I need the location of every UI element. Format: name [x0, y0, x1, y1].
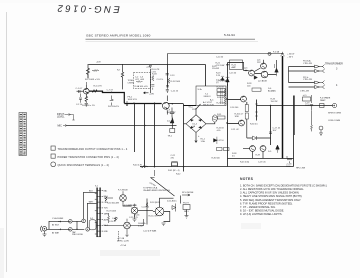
svg-text:MAG: MAG	[104, 195, 109, 198]
wire rail bottom long	[140, 166, 294, 168]
wire riser blk	[83, 192, 96, 219]
selector contact rungs	[96, 191, 100, 237]
svg-text:C-1 4.7: C-1 4.7	[76, 88, 84, 90]
capacitor C7 coupling	[110, 96, 114, 106]
svg-text:C1-A 100MF: C1-A 100MF	[52, 217, 64, 220]
wire q10 q11 stubs	[229, 148, 263, 158]
svg-text:CTRL-2W: CTRL-2W	[303, 79, 312, 81]
svg-text:1KV: 1KV	[273, 130, 277, 132]
legend checkbox 1: transformer connector pins	[51, 146, 55, 150]
diode D8	[253, 136, 257, 140]
wire input bottom	[49, 228, 70, 230]
resistor R31L box	[218, 116, 226, 119]
fuse F4 spkr	[320, 104, 325, 108]
wire q15 collector up	[160, 198, 174, 207]
svg-text:C-21 .02: C-21 .02	[231, 129, 240, 131]
resistor R25 box	[217, 89, 226, 92]
node rail junctions	[154, 166, 155, 167]
svg-text:R-41 (W – 4): R-41 (W – 4)	[168, 170, 180, 172]
handwritten sheet number ENG-0162 rotated 180	[55, 2, 120, 14]
svg-text:TUN: TUN	[104, 208, 109, 210]
fuse F2 on B+ line	[268, 52, 271, 55]
wire Q3 emitter down	[166, 111, 168, 115]
svg-text:C-14 50: C-14 50	[216, 57, 224, 59]
wire psu top link	[168, 103, 184, 105]
wire riser +24V	[167, 54, 169, 65]
node mic line crossings	[144, 125, 145, 126]
bias chain vertical	[256, 100, 258, 121]
node junction psu	[172, 103, 173, 104]
wire connector feed 3	[289, 82, 315, 84]
svg-text:R-52 4.7K: R-52 4.7K	[128, 205, 138, 207]
svg-text:+ 40.5V: + 40.5V	[287, 54, 295, 56]
svg-text:PILOT: PILOT	[183, 203, 190, 205]
node B+ rail top	[89, 64, 206, 66]
transformer secondary coil	[224, 89, 227, 105]
wire bridge left link	[184, 123, 187, 125]
wire arrow sp noise	[182, 194, 190, 196]
wire heavy signal path Q1 to vol	[89, 91, 124, 103]
svg-text:±5%: ±5%	[217, 130, 221, 132]
svg-text:R-5 4.7K: R-5 4.7K	[94, 86, 103, 88]
svg-text:SPKR 8 OHM: SPKR 8 OHM	[328, 113, 341, 115]
wire Q1 collector up	[85, 85, 87, 88]
wire q15 tail	[164, 212, 170, 222]
transistor Q5	[249, 70, 255, 76]
wire right col down	[293, 96, 295, 167]
svg-text:HFC LINE: HFC LINE	[296, 168, 306, 170]
svg-text:AT MAT: AT MAT	[52, 232, 60, 235]
resistor R35 box	[217, 148, 223, 151]
svg-text:5-31-94: 5-31-94	[224, 33, 235, 37]
resistor R26 box	[217, 93, 226, 96]
resistor R6 emitter	[85, 94, 87, 103]
svg-text:150 2W: 150 2W	[271, 101, 278, 103]
svg-text:MIC: MIC	[58, 125, 63, 128]
selector switch S1 rail B	[99, 188, 100, 238]
resistor R15	[168, 78, 170, 83]
terminal ring 3	[82, 219, 86, 223]
diode D7 right	[275, 64, 279, 76]
transistor Q14	[124, 222, 131, 229]
switch S2 box	[89, 220, 96, 230]
svg-text:8. DJ – EXT. BENDS MUTUAL DIOD: 8. DJ – EXT. BENDS MUTUAL DIODE.	[240, 209, 284, 213]
wire q12 down link	[123, 205, 132, 207]
svg-text:D-11 A14C: D-11 A14C	[167, 200, 177, 203]
resistor R1B	[152, 76, 154, 81]
selector left stubs	[95, 193, 97, 234]
wire connector feed 1	[289, 66, 315, 68]
svg-text:R-55 2.2K: R-55 2.2K	[149, 216, 159, 218]
wire q14 links	[104, 217, 144, 226]
wire d8 link	[247, 137, 271, 139]
svg-text:7. CT – ZENER NOMINAL SIG.: 7. CT – ZENER NOMINAL SIG.	[240, 205, 276, 209]
svg-text:WHT: WHT	[89, 202, 94, 204]
svg-text:R-2 100K ± 5%: R-2 100K ± 5%	[85, 79, 100, 81]
wire q stack links	[246, 102, 248, 138]
resistor R44	[311, 111, 313, 131]
resistor R2	[87, 64, 90, 78]
diode D5b	[254, 76, 257, 80]
tone control dashed box	[134, 73, 151, 89]
wire speaker line	[295, 105, 333, 107]
svg-text:TRANSFORMER: TRANSFORMER	[325, 63, 343, 66]
wire r30 col	[246, 102, 248, 105]
jack J4	[319, 126, 323, 130]
smudge faint notes	[241, 223, 261, 229]
wire signal path node A	[102, 92, 103, 93]
svg-text:BAL: BAL	[104, 189, 108, 192]
node junction	[154, 103, 155, 104]
wire th1 lead	[171, 123, 173, 129]
svg-text:R-40 4.7K: R-40 4.7K	[133, 165, 143, 167]
svg-text:R-50 620-6W: R-50 620-6W	[107, 203, 119, 205]
svg-text:R-8 100-1%: R-8 100-1%	[108, 106, 119, 108]
svg-text:C-7 47: C-7 47	[107, 89, 114, 91]
inductor L1 box	[303, 97, 311, 101]
electrolytic C20	[287, 156, 292, 163]
resistor R36 box	[224, 148, 230, 151]
wire pilot drop	[186, 210, 188, 216]
output stage frame left	[227, 63, 229, 167]
title underline	[86, 38, 256, 40]
svg-text:NOTES: NOTES	[240, 177, 254, 181]
svg-text:2ND DIODE: 2ND DIODE	[72, 234, 84, 236]
svg-text:3.3UF: 3.3UF	[138, 225, 144, 227]
relay driver box	[230, 60, 243, 70]
capacitor C1	[79, 90, 81, 93]
svg-text:R-45 0.5Ω: R-45 0.5Ω	[240, 162, 250, 164]
svg-text:(2): (2)	[216, 82, 219, 84]
transistor Q1	[84, 88, 90, 94]
svg-text:R-30 500: R-30 500	[212, 158, 221, 160]
wire input top	[47, 221, 71, 229]
wire transformer bottom bus	[184, 105, 197, 107]
selector contact dots	[102, 191, 103, 232]
svg-text:CTRL-3W: CTRL-3W	[303, 63, 312, 65]
resistor R31 box	[245, 113, 248, 119]
resistor R29 box	[252, 88, 261, 91]
svg-text:R-37 10: R-37 10	[217, 140, 225, 142]
transistor Q12 phono	[120, 195, 127, 202]
node bias ticks	[255, 104, 258, 116]
ground pilot	[185, 216, 189, 219]
capacitor C13	[166, 74, 169, 75]
scan speckle	[103, 251, 156, 256]
pilot lamp box	[183, 205, 190, 210]
bridge-over C22	[172, 162, 178, 167]
capacitor C11	[166, 88, 169, 94]
svg-text:BLK: BLK	[89, 191, 93, 193]
wire connector drop	[288, 67, 290, 83]
wire q5 col	[243, 62, 245, 71]
svg-text:GBC STEREO AMPLIFIER MODEL 108: GBC STEREO AMPLIFIER MODEL 1080	[86, 34, 151, 38]
svg-text:– 36 V: – 36 V	[287, 57, 294, 59]
svg-text:F-7 2N508: F-7 2N508	[118, 190, 128, 192]
svg-text:R-3A 10K ±5%: R-3A 10K ±5%	[135, 85, 148, 88]
diode D6	[221, 76, 224, 80]
svg-text:QUICK DISCONNECT TERMINALS (1: QUICK DISCONNECT TERMINALS (1 – 4)	[58, 164, 109, 167]
transistor Q11	[260, 146, 266, 152]
node junction	[133, 103, 134, 104]
resistor R30 box	[245, 105, 248, 112]
wire q12 base	[104, 197, 113, 201]
connector pin 1	[315, 65, 325, 69]
arrow input bottom	[58, 229, 61, 231]
bridge rectifier D1-D4	[186, 115, 206, 133]
wire bridge top feed	[195, 108, 197, 115]
legend checkbox 2: power transistor connector pins	[51, 154, 55, 158]
svg-text:R-27 560: R-27 560	[217, 103, 226, 105]
node j77	[76, 229, 77, 230]
capacitor C5	[151, 85, 154, 90]
svg-text:COM 4 OHM: COM 4 OHM	[328, 120, 340, 122]
svg-text:A14A(B): A14A(B)	[268, 89, 276, 92]
svg-text:1000/50V: 1000/50V	[167, 112, 177, 114]
svg-text:CTRL-5W: CTRL-5W	[300, 91, 309, 93]
resistor R7 bias	[121, 64, 123, 89]
svg-text:R-26 1K: R-26 1K	[217, 97, 225, 99]
svg-text:MERC 1-24V: MERC 1-24V	[117, 241, 129, 243]
svg-text:C-15 50: C-15 50	[229, 73, 237, 75]
coil hatch ellipse	[212, 115, 217, 122]
wire Q3 collector	[166, 96, 168, 102]
bridge diode c	[190, 126, 193, 128]
speaker jack J3	[332, 103, 336, 107]
wire to switch	[72, 221, 84, 229]
diode D2	[170, 117, 174, 123]
ground q15	[162, 223, 166, 226]
thermistor TH1	[170, 129, 175, 133]
svg-text:1.5A: 1.5A	[201, 140, 206, 143]
smudge faint bottom	[100, 250, 160, 256]
svg-text:GND: GND	[104, 231, 109, 233]
wire connector feed 2	[289, 70, 315, 72]
node +24V tick	[149, 66, 151, 68]
node j	[245, 70, 246, 71]
wire r33 drop	[270, 106, 272, 146]
node +24V arrow bottom	[144, 92, 149, 94]
wire q8 base	[228, 99, 241, 101]
svg-text:100K VOL: 100K VOL	[128, 99, 138, 101]
wire q5-q7 links	[244, 68, 262, 74]
svg-text:R-15 150K: R-15 150K	[171, 81, 181, 83]
svg-text:120V: 120V	[192, 109, 197, 111]
transistor Q10	[250, 146, 256, 152]
svg-text:R-6 100 ± 1%: R-6 100 ± 1%	[82, 105, 95, 107]
svg-text:R-1B: R-1B	[152, 74, 157, 76]
transistor Q9	[239, 120, 245, 126]
svg-text:3. ALL CAPACITORS IN UF. 50V: 3. ALL CAPACITORS IN UF. 50V UNLESS SHOW…	[240, 191, 300, 195]
wire speaker branch vertical	[294, 96, 296, 136]
svg-text:+TC-A: +TC-A	[120, 244, 127, 247]
svg-text:S-1: S-1	[95, 185, 98, 187]
svg-text:A-C: A-C	[210, 99, 214, 102]
connector pin 3	[315, 81, 325, 85]
capacitor C19	[310, 95, 313, 111]
wire fuse stub	[227, 84, 229, 86]
svg-text:2. ALL RESISTORS 1/2 W 10% TO: 2. ALL RESISTORS 1/2 W 10% TOLERANCE NOR…	[240, 187, 304, 191]
resistor on x147	[146, 203, 148, 207]
svg-text:ON AMPLIFIER DRIVING SIG: ON AMPLIFIER DRIVING SIG	[143, 189, 170, 192]
svg-text:C-11 25: C-11 25	[171, 91, 179, 93]
connector pin 2	[315, 69, 325, 73]
wire B+ distribution line	[168, 53, 283, 55]
transistor Q7	[261, 71, 268, 78]
resistor R5 collector load	[89, 90, 103, 93]
wire diag stub	[151, 170, 155, 178]
resistor R58	[108, 213, 110, 223]
wire drop x154	[154, 104, 156, 167]
svg-text:4.7K 10W: 4.7K 10W	[216, 65, 225, 67]
node heavy junction	[111, 92, 112, 93]
node bridge arrow	[195, 141, 197, 143]
svg-text:AT INLT: AT INLT	[52, 224, 60, 227]
bridge diode a	[190, 119, 193, 121]
svg-text:POWER TRANSISTOR CONNECTOR PIN: POWER TRANSISTOR CONNECTOR PINS (1 – 4)	[58, 156, 119, 159]
legend circle: quick disconnect terminals	[51, 162, 56, 167]
wire box link	[227, 64, 230, 66]
svg-text:+24V: +24V	[149, 93, 155, 95]
svg-text:C-18 .05: C-18 .05	[258, 162, 267, 164]
wire bridge bottom out	[195, 132, 197, 142]
svg-text:C-5 1%: C-5 1%	[157, 79, 164, 81]
capacitor C14	[166, 86, 169, 87]
wire riser wht	[87, 203, 96, 227]
wire output bottom rail	[228, 158, 294, 160]
ground q13	[133, 214, 137, 221]
ground Q1 emitter	[85, 104, 88, 106]
wire psu to mains diagonal	[151, 178, 175, 197]
terminal ring 1	[69, 220, 73, 224]
svg-text:C-54 5: C-54 5	[112, 218, 119, 220]
svg-text:6. TYP. FLAME PROOF RESISTOR: 6. TYP. FLAME PROOF RESISTOR (NOTED).	[240, 201, 293, 205]
wire q15 feed	[153, 211, 155, 213]
resistor R41 box	[172, 163, 177, 166]
svg-text:ENG-0162: ENG-0162	[55, 2, 120, 14]
switch S1-a	[197, 104, 201, 109]
transistor Q3 driver	[162, 102, 169, 109]
svg-text:.022 .068: .022 .068	[135, 79, 145, 81]
svg-text:F-2 3A: F-2 3A	[273, 50, 280, 53]
svg-text:R-34 0.5: R-34 0.5	[250, 124, 259, 126]
svg-text:R-25 1K: R-25 1K	[217, 87, 225, 89]
wire input level stub	[71, 115, 75, 121]
svg-text:R-57 100K: R-57 100K	[107, 211, 117, 213]
wire pot drop lines	[134, 104, 136, 153]
svg-text:150-5W: 150-5W	[212, 68, 219, 70]
svg-text:CNTRL: CNTRL	[128, 82, 136, 84]
wire mic bus	[67, 125, 177, 127]
transistor Q6	[261, 63, 267, 69]
phono input jack J1	[42, 227, 46, 231]
wire vert link phono	[146, 199, 148, 225]
svg-text:240/6.3: 240/6.3	[204, 96, 212, 98]
svg-text:C-54 5: C-54 5	[109, 221, 116, 223]
scan edge line left	[6, 12, 8, 272]
svg-text:9. LP (L3) LIGHTED PANEL LIGHT: 9. LP (L3) LIGHTED PANEL LIGHTS.	[240, 212, 283, 216]
wire q14 emitter drop	[126, 232, 129, 237]
svg-text:1. BOTH CH. SAME EXCEPT (CH) D: 1. BOTH CH. SAME EXCEPT (CH) DESIGNATION…	[240, 184, 327, 188]
bridge diode b	[199, 119, 202, 121]
svg-text:± 5%: ± 5%	[152, 71, 157, 73]
wire Q1 base input	[77, 90, 84, 92]
connector pin 4	[315, 85, 325, 89]
capacitor C9 filter	[170, 108, 174, 117]
wire output top rail	[228, 62, 244, 64]
wire bridge right link	[206, 122, 215, 124]
svg-text:C-22 & R WAS: C-22 & R WAS	[143, 230, 157, 233]
wire vertical feed phono from rail	[180, 196, 182, 204]
wire right col	[276, 60, 278, 68]
svg-text:10W: 10W	[235, 116, 239, 118]
svg-text:LEVEL: LEVEL	[57, 115, 65, 118]
svg-text:2AMP: 2AMP	[320, 99, 326, 102]
diode D12	[172, 204, 176, 212]
pot PS1 volume wiper	[126, 101, 128, 106]
wire tone box feed	[150, 69, 152, 93]
wire heavy path vol to Q3	[124, 103, 161, 105]
transformer primary coil	[221, 89, 223, 105]
svg-text:Q-7 A14B: Q-7 A14B	[258, 80, 267, 83]
wire q9 base	[228, 123, 239, 125]
wire q13 out	[138, 210, 153, 212]
arrow input top	[58, 221, 61, 223]
resistor R40	[140, 166, 148, 168]
svg-text:2.2K: 2.2K	[216, 75, 221, 77]
capacitor C2 input	[79, 94, 82, 103]
node dots x227	[226, 64, 227, 65]
bridge diode d	[199, 126, 202, 128]
svg-text:50UF: 50UF	[305, 105, 311, 107]
wire link verticals	[76, 221, 78, 229]
fuse symbol main B+	[281, 52, 285, 56]
svg-text:AMP: AMP	[232, 66, 237, 69]
diode D9 right	[276, 145, 280, 153]
transistor Q13	[131, 207, 138, 214]
wire B+ drop to transformer box	[205, 65, 207, 87]
svg-text:SELECTOR: SELECTOR	[203, 104, 214, 106]
selector switch S1 rail A	[96, 188, 97, 238]
wire out node to speaker line	[257, 105, 295, 107]
svg-text:4. HEAVY LINE SHOWS MAIN SIGNA: 4. HEAVY LINE SHOWS MAIN SIGNAL PATH (BO…	[240, 194, 303, 198]
revision stamp box (rotated text block)	[19, 113, 26, 156]
capacitor C17	[269, 132, 272, 134]
svg-text:+40V: +40V	[96, 62, 101, 64]
diode D8L	[214, 137, 217, 144]
wire connector feed 4	[289, 86, 315, 88]
terminal ring 2	[69, 228, 73, 232]
transistor Q15	[155, 207, 164, 216]
transformer T1 box	[196, 86, 226, 106]
svg-text:R-53 (W-R): R-53 (W-R)	[150, 202, 161, 204]
diode D5 top	[226, 77, 230, 82]
transistor Q8	[241, 96, 247, 102]
power supply left wire	[183, 104, 185, 172]
terminal ring 4	[86, 228, 90, 232]
svg-text:TRANSFORMER AND OUTPUT CONNECT: TRANSFORMER AND OUTPUT CONNECTOR PINS 1 …	[58, 148, 128, 151]
node out	[270, 105, 271, 106]
wire drop x145	[144, 104, 146, 167]
wire q6 stub	[264, 60, 277, 75]
svg-text:C-16 100: C-16 100	[230, 107, 239, 109]
ground J1	[43, 231, 47, 237]
svg-text:SP & NOISE: SP & NOISE	[182, 192, 194, 194]
svg-text:C-53 .02: C-53 .02	[142, 207, 151, 209]
ground J4	[319, 130, 323, 136]
svg-text:5. 2ND SEQ. REPLACEMENT TRANSI: 5. 2ND SEQ. REPLACEMENT TRANSISTORS ONLY…	[240, 198, 301, 202]
heavy B+ bus vertical	[282, 56, 284, 158]
